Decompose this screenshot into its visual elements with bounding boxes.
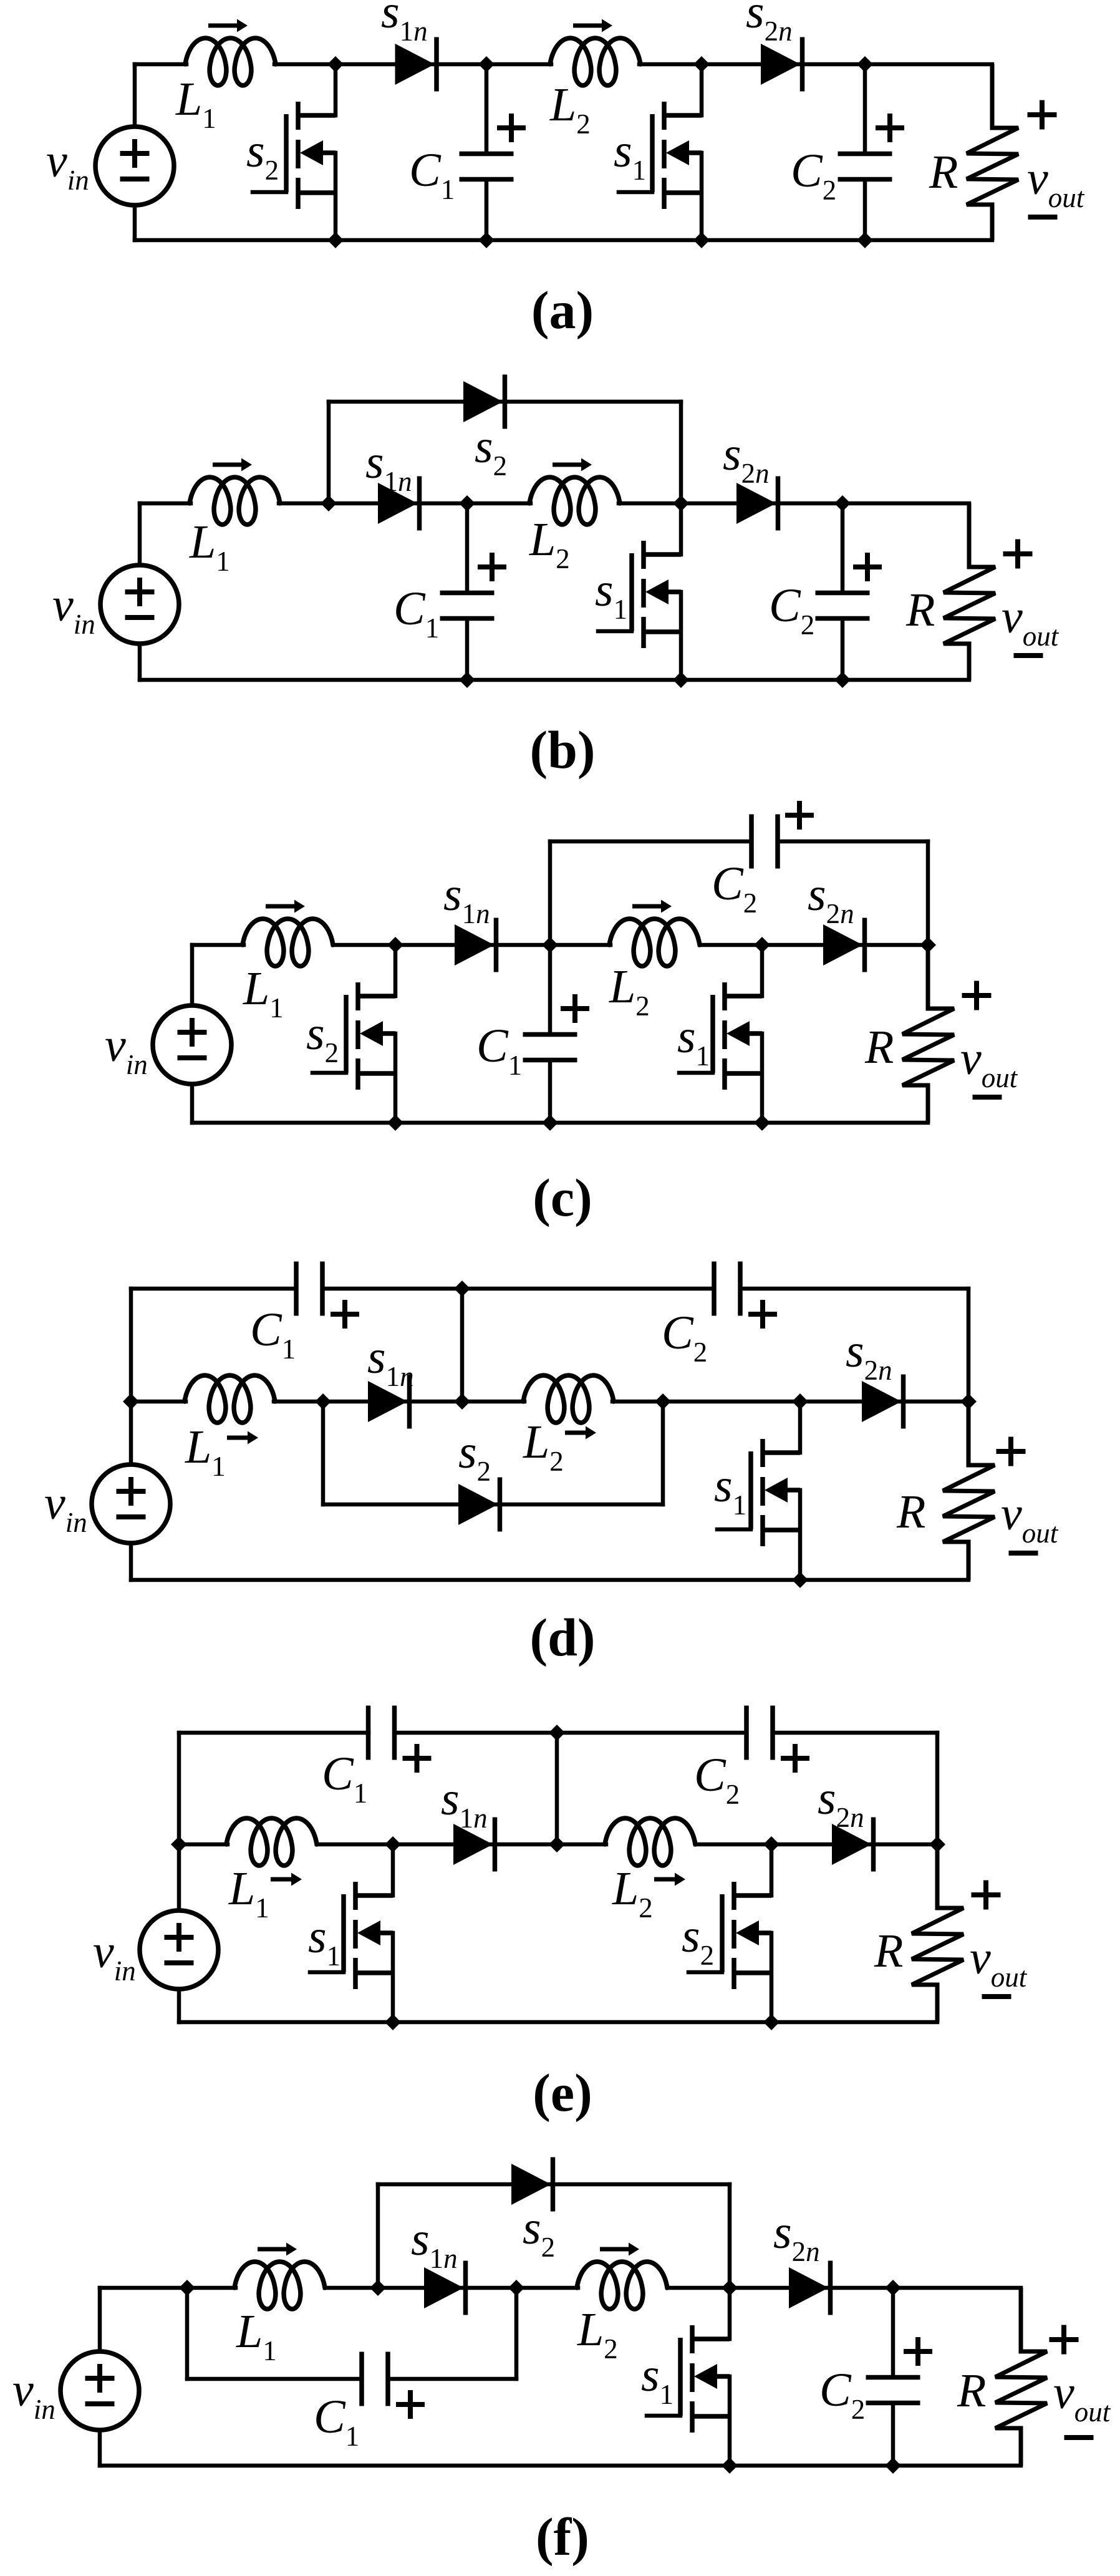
svg-text:L1: L1 [243, 962, 284, 1024]
svg-text:(b): (b) [529, 720, 595, 780]
svg-text:C2: C2 [819, 2364, 865, 2425]
svg-text:vout: vout [1002, 591, 1060, 652]
svg-text:s2: s2 [523, 2202, 555, 2263]
svg-text:L2: L2 [577, 2303, 618, 2365]
svg-text:L2: L2 [612, 1862, 653, 1924]
svg-text:s1n: s1n [443, 868, 490, 929]
svg-text:vin: vin [46, 135, 89, 196]
svg-text:s2: s2 [306, 1007, 339, 1068]
svg-text:vout: vout [970, 1932, 1028, 1993]
svg-text:(d): (d) [529, 1607, 595, 1667]
svg-text:(f): (f) [536, 2507, 589, 2567]
svg-text:R: R [905, 584, 935, 636]
svg-text:L1: L1 [185, 1421, 226, 1482]
svg-text:(a): (a) [531, 280, 594, 340]
svg-text:s1: s1 [595, 564, 627, 625]
svg-text:(c): (c) [533, 1168, 592, 1227]
svg-text:C1: C1 [314, 2391, 359, 2452]
svg-text:s2n: s2n [746, 0, 793, 47]
svg-text:L2: L2 [549, 79, 591, 140]
svg-text:s1n: s1n [411, 2213, 458, 2274]
svg-text:R: R [864, 1021, 894, 1073]
svg-text:s1: s1 [641, 2349, 673, 2410]
svg-text:s1: s1 [677, 1010, 710, 1072]
svg-text:s2n: s2n [846, 1325, 892, 1386]
svg-text:R: R [874, 1925, 903, 1977]
svg-text:s2n: s2n [773, 2206, 820, 2267]
svg-text:C2: C2 [769, 579, 814, 641]
svg-text:s2n: s2n [808, 868, 854, 929]
svg-text:C1: C1 [393, 583, 439, 644]
svg-text:R: R [896, 1486, 925, 1538]
svg-text:s1: s1 [614, 125, 646, 186]
svg-text:s2n: s2n [818, 1772, 864, 1833]
svg-text:vin: vin [44, 1477, 87, 1538]
svg-text:R: R [957, 2365, 986, 2417]
svg-text:s1n: s1n [367, 1331, 414, 1392]
svg-text:C2: C2 [791, 145, 836, 206]
svg-text:vin: vin [52, 579, 95, 640]
svg-text:vout: vout [1053, 2366, 1111, 2428]
svg-text:C1: C1 [409, 144, 455, 205]
svg-text:vin: vin [105, 1019, 148, 1080]
svg-text:s1n: s1n [365, 436, 412, 497]
svg-text:s2n: s2n [723, 428, 770, 489]
svg-text:L2: L2 [523, 1416, 564, 1477]
svg-text:vout: vout [960, 1032, 1018, 1093]
svg-text:vout: vout [1027, 152, 1085, 213]
svg-text:C1: C1 [250, 1304, 296, 1365]
svg-text:vin: vin [12, 2364, 56, 2425]
svg-text:C2: C2 [694, 1749, 740, 1810]
svg-text:s1n: s1n [441, 1773, 488, 1834]
svg-text:s2: s2 [246, 125, 279, 186]
svg-text:(e): (e) [533, 2063, 592, 2123]
svg-text:C1: C1 [322, 1748, 367, 1809]
svg-text:L1: L1 [236, 2305, 277, 2366]
svg-text:s2: s2 [458, 1426, 491, 1487]
svg-text:s2: s2 [475, 420, 507, 482]
svg-text:s1: s1 [714, 1460, 746, 1521]
svg-text:vout: vout [1001, 1488, 1059, 1549]
svg-text:s1: s1 [308, 1910, 340, 1972]
svg-text:L2: L2 [609, 961, 650, 1022]
svg-text:s2: s2 [682, 1910, 714, 1971]
svg-text:L1: L1 [228, 1862, 269, 1924]
svg-text:C1: C1 [476, 1020, 522, 1081]
svg-text:s1n: s1n [381, 0, 428, 47]
svg-text:vin: vin [93, 1925, 136, 1987]
svg-text:C2: C2 [662, 1307, 707, 1368]
svg-text:R: R [929, 146, 958, 198]
